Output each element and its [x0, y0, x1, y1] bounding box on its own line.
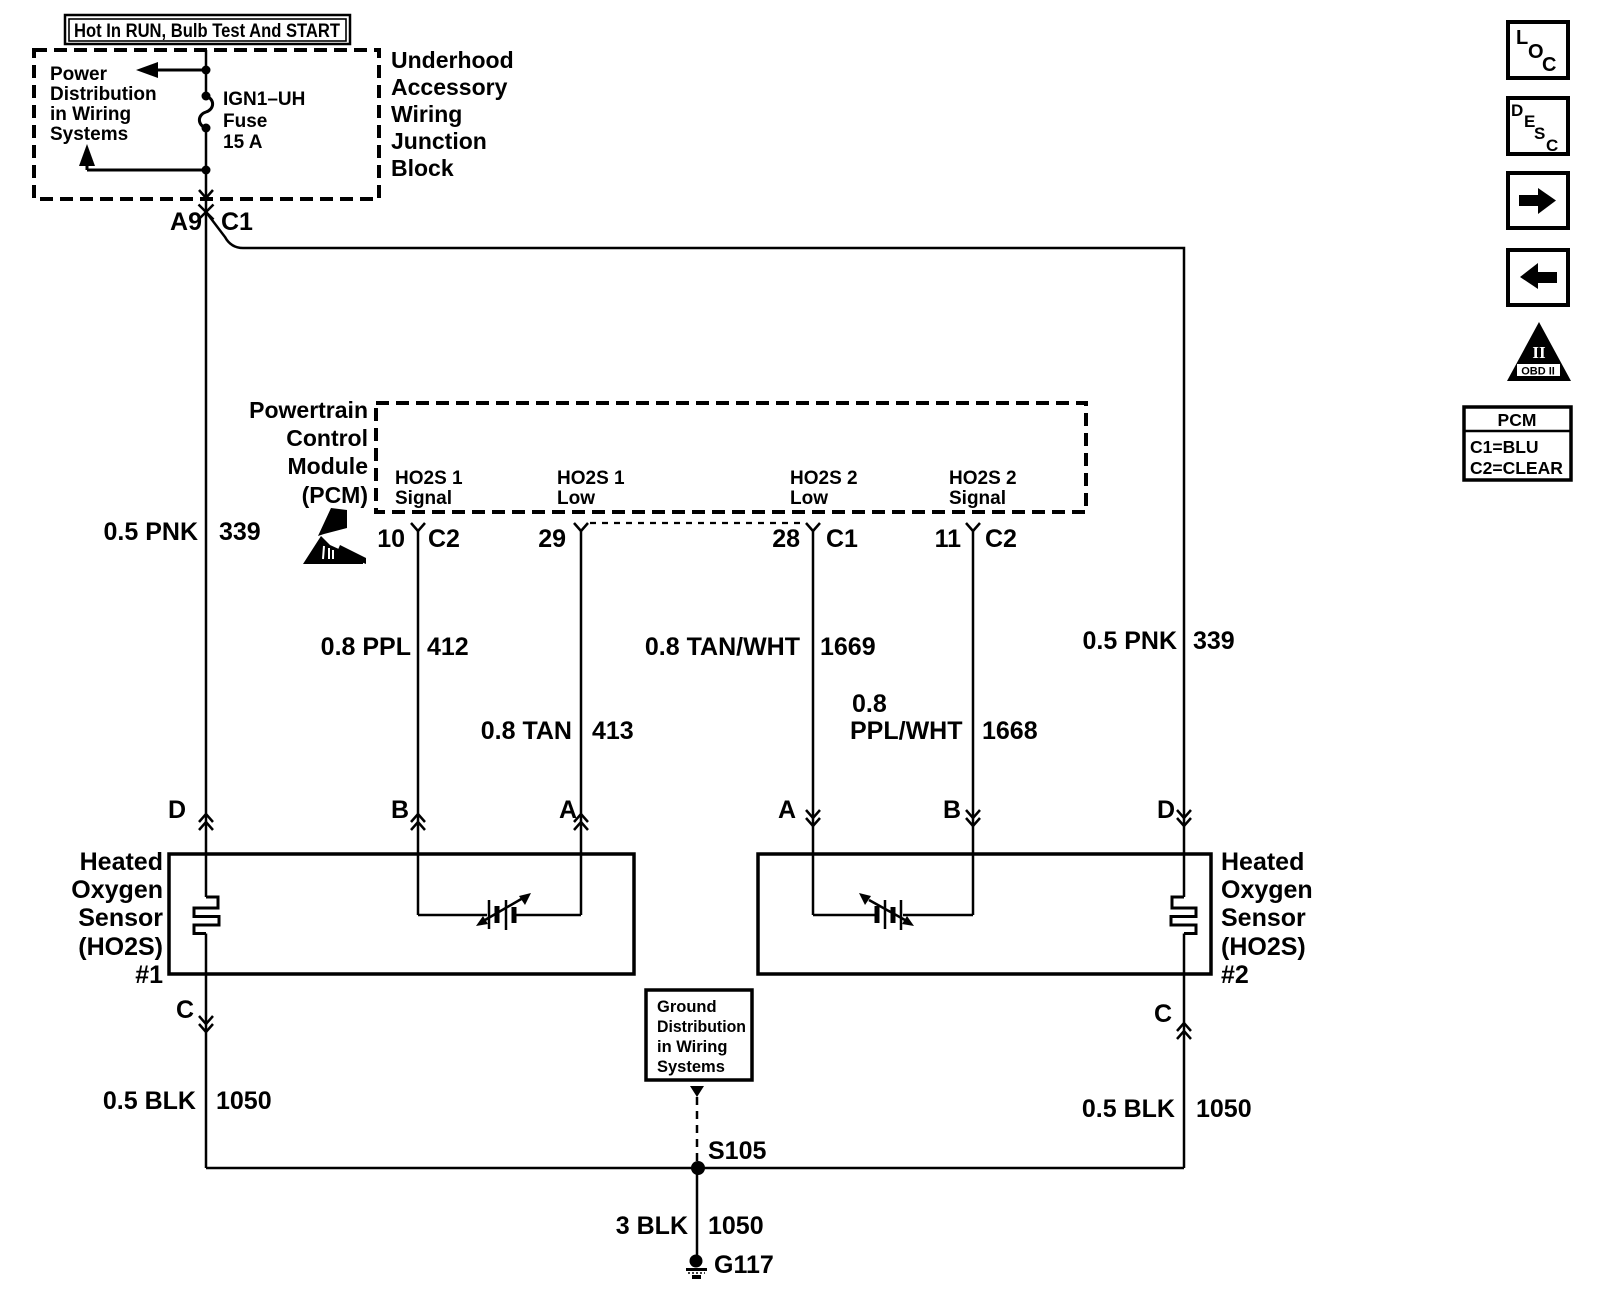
- svg-text:1668: 1668: [982, 717, 1038, 745]
- svg-text:Underhood: Underhood: [391, 47, 514, 73]
- svg-text:0.5 PNK: 0.5 PNK: [1083, 627, 1177, 655]
- svg-text:Oxygen: Oxygen: [1221, 876, 1313, 904]
- label: HO2S 1 Low: [557, 468, 625, 509]
- svg-text:A9: A9: [170, 208, 202, 236]
- label: 0.8 PPL 412: [321, 633, 469, 661]
- svg-text:Signal: Signal: [395, 488, 452, 509]
- label: 0.5 BLK 1050 (left): [103, 1087, 272, 1115]
- wire: 3 BLK 1050 to ground: [696, 1168, 699, 1256]
- svg-text:Powertrain: Powertrain: [249, 397, 368, 423]
- svg-text:3 BLK: 3 BLK: [616, 1212, 688, 1240]
- connector arrows B (sensor 2, down): [943, 796, 980, 826]
- svg-text:28: 28: [772, 525, 800, 553]
- dashed connector link between pin 29 and pin 28: [590, 522, 805, 524]
- svg-text:PPL/WHT: PPL/WHT: [850, 717, 963, 745]
- label: 0.8 TAN/WHT 1669: [645, 633, 876, 661]
- svg-text:G117: G117: [714, 1251, 774, 1279]
- connector arrows B (sensor 1): [391, 796, 425, 830]
- svg-text:Control: Control: [286, 425, 368, 451]
- svg-text:0.8 TAN/WHT: 0.8 TAN/WHT: [645, 633, 800, 661]
- svg-text:D: D: [1511, 101, 1523, 120]
- svg-text:11: 11: [935, 525, 962, 553]
- svg-text:C: C: [1546, 136, 1558, 155]
- svg-text:Low: Low: [557, 488, 595, 509]
- svg-text:Signal: Signal: [949, 488, 1006, 509]
- ESD warning symbol: [303, 508, 366, 564]
- svg-text:A: A: [778, 796, 796, 824]
- svg-text:B: B: [391, 796, 409, 824]
- svg-text:Low: Low: [790, 488, 828, 509]
- PCM dashed box: [376, 403, 1086, 512]
- svg-text:Wiring: Wiring: [391, 101, 462, 127]
- dashed wire to S105: [696, 1097, 699, 1161]
- HO2S #2 box: [758, 854, 1211, 974]
- connector arrows D (sensor 1): [168, 796, 213, 830]
- svg-text:0.5 PNK: 0.5 PNK: [104, 518, 198, 546]
- fuse IGN1-UH 15 A: [199, 92, 212, 133]
- svg-text:Sensor: Sensor: [1221, 904, 1306, 932]
- HO2S #1 box: [169, 854, 634, 974]
- junction block dashed box: [34, 50, 379, 199]
- svg-text:Sensor: Sensor: [78, 904, 163, 932]
- svg-text:C1: C1: [826, 525, 858, 553]
- label: 0.5 BLK 1050 (right): [1082, 1095, 1252, 1123]
- pin 11 C2 Y connector: [935, 523, 1017, 553]
- svg-text:1050: 1050: [1196, 1095, 1252, 1123]
- svg-text:Fuse: Fuse: [223, 111, 267, 132]
- svg-text:10: 10: [377, 525, 405, 553]
- label: Powertrain Control Module (PCM): [249, 397, 368, 508]
- svg-text:0.8: 0.8: [852, 690, 887, 718]
- wire: sensor 2 ground lead: [1183, 934, 1186, 1169]
- connector arrows A (sensor 2, down): [778, 796, 820, 826]
- label: 0.8 PPL/WHT 1668: [850, 690, 1038, 745]
- svg-text:0.8 TAN: 0.8 TAN: [481, 717, 572, 745]
- arrowhead leaving junction block: [199, 190, 213, 198]
- connector C (sensor 1, down arrows): [176, 996, 213, 1032]
- wire: 0.5 PNK 339 left vertical: [205, 198, 208, 897]
- heater element sensor 2: [1171, 897, 1196, 934]
- svg-text:#2: #2: [1221, 961, 1249, 989]
- svg-text:C: C: [1542, 54, 1556, 76]
- svg-text:Module: Module: [288, 453, 369, 479]
- arrow from ground distribution box: [690, 1086, 704, 1097]
- ground symbol G117: [686, 1251, 774, 1279]
- wire branch to Power Distribution (left arrow): [136, 62, 211, 78]
- label: 3 BLK 1050: [616, 1212, 764, 1240]
- svg-text:339: 339: [219, 518, 261, 546]
- splice S105: [691, 1137, 766, 1175]
- wire: 0.8 PPL/WHT 1668 (pin 11 to sensor 2 B): [972, 531, 975, 915]
- label: HO2S 2 Signal: [949, 468, 1017, 509]
- svg-text:in Wiring: in Wiring: [50, 104, 131, 125]
- svg-text:29: 29: [538, 525, 566, 553]
- svg-text:1669: 1669: [820, 633, 876, 661]
- svg-text:Heated: Heated: [80, 848, 163, 876]
- PCM connector legend box: [1464, 407, 1571, 480]
- connector arrows A (sensor 1): [559, 796, 588, 830]
- sensor cell 1 (variable source): [418, 893, 581, 930]
- legend box back arrow: [1508, 250, 1568, 305]
- svg-text:IGN1–UH: IGN1–UH: [223, 89, 305, 110]
- wire: 0.8 TAN/WHT 1669 (pin 28 to sensor 2 A): [812, 531, 815, 915]
- wire: feed from top into fuse: [205, 50, 208, 96]
- svg-text:D: D: [168, 796, 186, 824]
- svg-text:C: C: [1154, 1000, 1172, 1028]
- wire branch return to Power Distribution (up arrow): [79, 144, 211, 175]
- label: Underhood Accessory Wiring Junction Block: [391, 47, 514, 181]
- svg-text:A: A: [559, 796, 577, 824]
- svg-text:HO2S 2: HO2S 2: [949, 468, 1017, 489]
- svg-text:Junction: Junction: [391, 128, 487, 154]
- legend box forward arrow: [1508, 173, 1568, 228]
- svg-text:S105: S105: [708, 1137, 766, 1165]
- svg-text:D: D: [1157, 796, 1175, 824]
- svg-text:0.5 BLK: 0.5 BLK: [103, 1087, 196, 1115]
- wire: fuse output: [205, 128, 208, 198]
- svg-text:Ground: Ground: [657, 998, 717, 1016]
- svg-text:413: 413: [592, 717, 634, 745]
- svg-text:Oxygen: Oxygen: [71, 876, 163, 904]
- svg-text:Power: Power: [50, 64, 108, 85]
- svg-text:C1: C1: [221, 208, 253, 236]
- sensor cell 2 (variable source): [813, 893, 973, 930]
- svg-text:HO2S 1: HO2S 1: [395, 468, 463, 489]
- wire: sensor 1 ground lead inside box: [205, 934, 208, 1169]
- wire: branch from A9/C1 across top to right side: [206, 212, 1184, 897]
- svg-text:HO2S 1: HO2S 1: [557, 468, 625, 489]
- svg-text:Systems: Systems: [50, 124, 128, 145]
- OBD II triangle: [1507, 322, 1571, 381]
- connector A9 / C1 (X symbol): [199, 205, 214, 220]
- svg-text:C2: C2: [985, 525, 1017, 553]
- svg-text:(PCM): (PCM): [302, 482, 368, 508]
- svg-text:PCM: PCM: [1498, 410, 1537, 430]
- svg-text:II: II: [1532, 343, 1546, 362]
- svg-text:C: C: [176, 996, 194, 1024]
- svg-text:Distribution: Distribution: [657, 1018, 746, 1036]
- connector arrows D (sensor 2, down): [1157, 796, 1191, 826]
- svg-text:Accessory: Accessory: [391, 74, 508, 100]
- svg-text:1050: 1050: [708, 1212, 764, 1240]
- svg-text:HO2S 2: HO2S 2: [790, 468, 858, 489]
- svg-text:0.5 BLK: 0.5 BLK: [1082, 1095, 1175, 1123]
- label: 0.5 PNK 339 (right): [1083, 627, 1235, 655]
- svg-text:412: 412: [427, 633, 469, 661]
- svg-text:Block: Block: [391, 155, 454, 181]
- svg-text:339: 339: [1193, 627, 1235, 655]
- svg-text:#1: #1: [135, 961, 163, 989]
- svg-text:Distribution: Distribution: [50, 84, 157, 105]
- wire: 0.8 PPL 412 (pin 10 to sensor 1 B): [417, 531, 420, 915]
- svg-text:Heated: Heated: [1221, 848, 1304, 876]
- label: IGN1-UH Fuse 15 A: [223, 89, 305, 153]
- wire: 0.8 TAN 413 (pin 29 to sensor 1 A): [580, 531, 583, 915]
- title box: Hot In RUN, Bulb Test And START: [65, 15, 350, 44]
- svg-text:L: L: [1516, 27, 1528, 49]
- svg-text:15 A: 15 A: [223, 132, 263, 153]
- pin 29 Y connector: [538, 523, 588, 553]
- label: Heated Oxygen Sensor (HO2S) #1: [71, 848, 163, 989]
- legend box DESC: [1508, 98, 1568, 155]
- svg-text:Systems: Systems: [657, 1058, 725, 1076]
- svg-text:Hot In RUN, Bulb Test And STAR: Hot In RUN, Bulb Test And START: [74, 21, 340, 42]
- legend box LOC: [1508, 22, 1568, 78]
- svg-text:in Wiring: in Wiring: [657, 1038, 727, 1056]
- svg-text:C2=CLEAR: C2=CLEAR: [1470, 458, 1563, 478]
- label: Heated Oxygen Sensor (HO2S) #2: [1221, 848, 1313, 989]
- pin 28 C1 Y connector: [772, 523, 858, 553]
- heater element sensor 1: [194, 897, 219, 934]
- label: Power Distribution in Wiring Systems: [50, 64, 157, 145]
- connector C (sensor 2, up arrows): [1154, 1000, 1191, 1039]
- label: 0.5 PNK 339 (left): [104, 518, 261, 546]
- label: 0.8 TAN 413: [481, 717, 634, 745]
- svg-text:OBD II: OBD II: [1521, 366, 1555, 378]
- svg-text:C2: C2: [428, 525, 460, 553]
- svg-text:0.8 PPL: 0.8 PPL: [321, 633, 411, 661]
- svg-text:B: B: [943, 796, 961, 824]
- label: HO2S 2 Low: [790, 468, 858, 509]
- ground distribution box: [646, 990, 752, 1080]
- svg-text:(HO2S): (HO2S): [1221, 933, 1306, 961]
- svg-text:C1=BLU: C1=BLU: [1470, 437, 1539, 457]
- svg-text:S: S: [1534, 124, 1545, 143]
- svg-text:1050: 1050: [216, 1087, 272, 1115]
- label: HO2S 1 Signal: [395, 468, 463, 509]
- bottom horizontal ground wire: [206, 1167, 1184, 1170]
- pin 10 C2 Y connector: [377, 523, 460, 553]
- svg-text:(HO2S): (HO2S): [78, 933, 163, 961]
